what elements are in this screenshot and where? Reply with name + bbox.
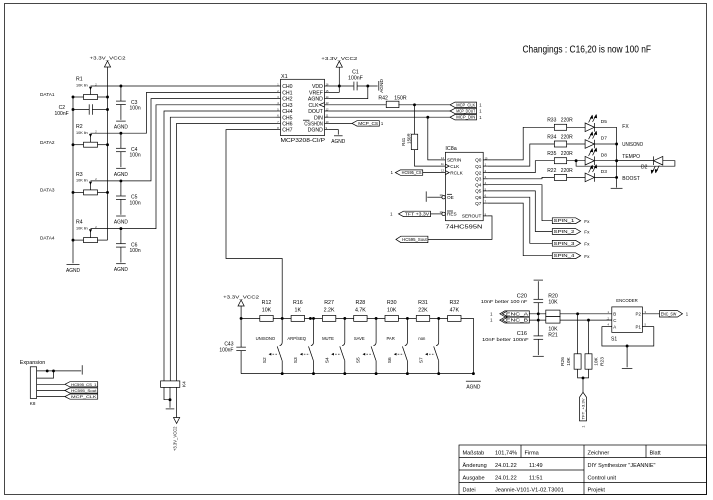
pin 1 (MCP_DOUT) xyxy=(479,109,482,114)
svg-text:S5: S5 xyxy=(356,357,362,363)
wire Q0 to R33 xyxy=(488,127,556,160)
svg-text:D5: D5 xyxy=(601,119,607,125)
svg-text:47K: 47K xyxy=(450,308,460,314)
wire K4 pin1 to ground xyxy=(164,387,170,399)
svg-text:AGND: AGND xyxy=(466,385,480,391)
svg-text:Q1: Q1 xyxy=(475,164,482,169)
svg-text:Q4: Q4 xyxy=(475,183,482,188)
wire SEROUT to flag xyxy=(428,216,492,240)
svg-text:R34: R34 xyxy=(547,134,556,140)
svg-text:S4: S4 xyxy=(324,357,330,363)
pin CLK (IC8a) xyxy=(441,162,461,169)
junction node1 top xyxy=(281,317,284,320)
IC X1 box xyxy=(281,79,325,135)
net flag ENC_A xyxy=(500,311,530,317)
svg-text:Ausgabe: Ausgabe xyxy=(463,475,485,481)
svg-text:MUTE: MUTE xyxy=(322,336,334,341)
svg-text:Q7: Q7 xyxy=(475,201,482,206)
svg-text:ENC_SW: ENC_SW xyxy=(661,311,677,316)
svg-text:1: 1 xyxy=(381,121,384,126)
pin SEROUT xyxy=(462,212,488,218)
junction node4 bottom xyxy=(375,372,378,375)
svg-text:10K: 10K xyxy=(387,308,397,314)
svg-text:22K: 22K xyxy=(418,308,428,314)
svg-text:CLK: CLK xyxy=(309,103,320,109)
LED D5 xyxy=(585,114,607,132)
svg-text:Expansion: Expansion xyxy=(20,360,46,366)
svg-text:14: 14 xyxy=(441,156,444,160)
svg-text:MCP3208-CI/P: MCP3208-CI/P xyxy=(281,138,326,144)
svg-text:VREF: VREF xyxy=(309,91,323,97)
svg-text:DIY Synthesizer "JEANNIE": DIY Synthesizer "JEANNIE" xyxy=(588,463,656,469)
pin DGND (X1 pin 9) xyxy=(308,126,329,134)
svg-text:D2: D2 xyxy=(641,164,648,170)
switch S7 xyxy=(418,318,438,373)
svg-text:IC8a: IC8a xyxy=(445,146,456,152)
net flag TFT_+3.3V (vertical) xyxy=(580,392,587,427)
pin VDD (X1 pin 16) xyxy=(312,82,329,90)
svg-text:R21: R21 xyxy=(548,333,558,339)
svg-text:S2: S2 xyxy=(262,357,268,363)
junction C2 right xyxy=(106,108,109,111)
svg-text:CH5: CH5 xyxy=(282,115,292,121)
LED D3 xyxy=(585,164,607,182)
wire DOUT row xyxy=(329,110,450,112)
svg-text:DATA3: DATA3 xyxy=(40,188,55,193)
svg-text:SPIN_2: SPIN_2 xyxy=(554,229,576,234)
pin VREF (X1 pin 15) xyxy=(309,89,329,97)
svg-text:MCP_DIN: MCP_DIN xyxy=(456,115,475,120)
resistor R26 xyxy=(560,314,581,369)
svg-text:1K: 1K xyxy=(295,308,302,314)
svg-text:Changings : C16,20 is now 100: Changings : C16,20 is now 100 nF xyxy=(523,44,652,55)
svg-text:24.01.22: 24.01.22 xyxy=(495,463,517,469)
junction VDD supply xyxy=(338,85,341,88)
resistor R16 xyxy=(291,300,304,321)
wire C20-C16 column xyxy=(537,303,539,336)
svg-text:100n: 100n xyxy=(130,248,141,254)
svg-text:220R: 220R xyxy=(561,151,573,157)
wire ENC_A row xyxy=(529,313,612,315)
ground bar (K8) xyxy=(81,365,83,374)
svg-text:R27: R27 xyxy=(324,300,334,306)
junction node1 bottom xyxy=(281,372,284,375)
wire DIN row xyxy=(329,116,450,118)
resistor R31 xyxy=(416,300,429,321)
junction node3 bottom xyxy=(343,372,346,375)
resistor R20 xyxy=(546,294,560,317)
svg-text:10K: 10K xyxy=(593,356,599,365)
svg-text:SPIN_4: SPIN_4 xyxy=(554,253,576,258)
wire to LED D5 xyxy=(567,126,585,128)
wire CH2 to R3 wiper xyxy=(91,99,277,181)
wire AGND pin riser xyxy=(329,86,368,99)
junction C2 left xyxy=(72,108,75,111)
svg-text:UNISONO: UNISONO xyxy=(622,142,643,148)
resistor R21 xyxy=(546,317,560,339)
svg-text:ENC_B: ENC_B xyxy=(506,318,528,323)
resistor R42 xyxy=(378,96,406,108)
svg-text:100nF: 100nF xyxy=(219,347,233,353)
wire ground bus left xyxy=(72,97,74,263)
svg-text:HC595_Sout: HC595_Sout xyxy=(71,389,96,393)
resistor R35 xyxy=(547,151,573,164)
pin RCLK xyxy=(441,169,464,176)
svg-text:R33: R33 xyxy=(547,118,556,124)
LED D8 xyxy=(585,148,607,166)
junction K8 pin1 xyxy=(46,369,49,372)
svg-text:101,74%: 101,74% xyxy=(495,450,517,456)
wire ENC_B row xyxy=(529,319,612,321)
wire S1 to ground xyxy=(626,346,628,367)
wire C20 column top xyxy=(537,281,539,299)
svg-text:Zeichner: Zeichner xyxy=(588,450,610,456)
junction D7 bus xyxy=(615,143,618,146)
ground AGND (ladder) xyxy=(466,381,481,391)
junction rail R1 xyxy=(106,96,109,99)
svg-text:AGND: AGND xyxy=(114,267,128,273)
svg-text:R31: R31 xyxy=(418,300,428,306)
svg-text:3: 3 xyxy=(645,310,647,314)
wire K8 pin1 xyxy=(37,370,82,372)
ground AGND (C3) xyxy=(114,121,128,131)
svg-text:D7: D7 xyxy=(601,136,607,142)
svg-text:4: 4 xyxy=(608,323,610,327)
svg-text:ENCODER: ENCODER xyxy=(616,298,638,303)
svg-text:P1: P1 xyxy=(636,324,642,329)
wire ladder top row xyxy=(241,318,473,373)
wire LED cathode bus xyxy=(616,127,618,187)
svg-text:MCP_CLK: MCP_CLK xyxy=(456,102,475,107)
pin 1 (ENC_SW) xyxy=(686,312,689,317)
svg-text:1: 1 xyxy=(490,318,493,323)
junction node6 top xyxy=(437,317,440,320)
wire Q1 to R34 xyxy=(488,144,556,166)
svg-text:Fx: Fx xyxy=(584,230,590,235)
junction R23 tap xyxy=(587,319,590,322)
wire D5 cathode xyxy=(594,126,616,128)
svg-text:TFT +3.3V: TFT +3.3V xyxy=(405,211,430,216)
svg-text:Maßstab: Maßstab xyxy=(463,450,485,456)
wire K4 pin3 supply xyxy=(176,387,178,417)
junction K8 pin2 xyxy=(52,369,55,372)
wire K4 pin2 ground stub xyxy=(169,387,171,407)
label K8 xyxy=(30,401,36,406)
wire K8 pin2 xyxy=(37,371,54,378)
svg-text:MCP_CLK: MCP_CLK xyxy=(71,395,97,399)
LED D7 xyxy=(585,131,607,149)
svg-text:S6: S6 xyxy=(387,357,393,363)
svg-text:R3: R3 xyxy=(76,172,83,178)
svg-text:DIN: DIN xyxy=(314,115,323,121)
svg-text:ARP/SEQ: ARP/SEQ xyxy=(287,336,306,341)
svg-text:TEMPO: TEMPO xyxy=(622,154,640,160)
svg-text:150R: 150R xyxy=(394,96,407,102)
svg-text:Änderung: Änderung xyxy=(463,462,487,469)
capacitor C3 xyxy=(116,86,141,120)
svg-text:10K lin: 10K lin xyxy=(76,226,88,230)
svg-text:CH1: CH1 xyxy=(282,91,292,97)
svg-text:R32: R32 xyxy=(449,300,459,306)
junction node4 top xyxy=(375,317,378,320)
wire VREF to supply xyxy=(329,91,340,93)
resistor R27 xyxy=(322,300,335,321)
svg-text:non: non xyxy=(418,336,426,341)
ground AGND (C5) xyxy=(114,216,128,226)
label Fx (SPIN_3) xyxy=(584,241,590,246)
wire Q5 to SPIN_2 xyxy=(488,191,552,232)
power +3.3V_VCC2 (ladder) xyxy=(223,295,259,319)
junction D8 anode xyxy=(575,159,578,162)
svg-text:SEROUT: SEROUT xyxy=(462,214,482,219)
svg-text:MCP_DOUT: MCP_DOUT xyxy=(456,108,475,113)
svg-text:DOUT: DOUT xyxy=(308,109,324,115)
svg-text:K8: K8 xyxy=(30,401,36,406)
svg-text:10K lin: 10K lin xyxy=(76,179,88,183)
svg-text:R35: R35 xyxy=(547,151,556,157)
pin A (encoder) xyxy=(602,323,616,330)
svg-text:FX: FX xyxy=(622,124,629,130)
switch S2 xyxy=(256,318,283,373)
label BOOST xyxy=(622,176,640,182)
svg-text:220R: 220R xyxy=(561,118,573,124)
net flag MCP_DOUT xyxy=(450,108,477,113)
pin CH7 (X1 pin 8) xyxy=(277,126,293,134)
junction column ENC_A xyxy=(537,312,540,315)
ground (S1) xyxy=(622,368,633,370)
svg-text:R41: R41 xyxy=(401,137,406,146)
capacitor C1 xyxy=(348,70,377,91)
wire R41 top xyxy=(414,105,416,134)
pin DIN (X1 pin 11) xyxy=(314,114,329,122)
capacitor C43 xyxy=(219,318,246,373)
label S1 xyxy=(611,336,617,342)
pin Q4 xyxy=(475,181,488,187)
junction ground bus R2 xyxy=(72,143,75,146)
svg-text:R2: R2 xyxy=(76,124,83,130)
svg-text:S3: S3 xyxy=(293,357,299,363)
pin RES (inverted) xyxy=(440,210,457,217)
svg-text:2.2K: 2.2K xyxy=(324,308,335,314)
junction DIN/SERIN xyxy=(426,116,429,119)
wire D2 loop xyxy=(576,161,675,167)
net flag SPIN_3 xyxy=(552,240,580,246)
pin AGND (X1 pin 14) xyxy=(308,95,329,103)
svg-text:Projekt: Projekt xyxy=(588,488,606,494)
pin CH5 (X1 pin 6) xyxy=(277,114,293,122)
junction C6 tap xyxy=(119,227,122,230)
svg-text:100n: 100n xyxy=(130,153,141,159)
svg-text:C: C xyxy=(613,318,616,323)
wire R41 to CLK pin xyxy=(415,150,441,166)
svg-text:10K: 10K xyxy=(566,356,572,365)
pin 1 (ENC_B) xyxy=(490,318,493,323)
switch S6 xyxy=(386,318,407,373)
svg-text:CH0: CH0 xyxy=(282,84,292,90)
svg-text:Q0: Q0 xyxy=(475,158,482,163)
svg-text:100n: 100n xyxy=(130,200,141,206)
pin CS/SHDN (X1 pin 10) xyxy=(303,120,329,128)
net flag MCP_DIN xyxy=(450,115,477,120)
svg-text:1: 1 xyxy=(390,212,393,217)
connector K4 box xyxy=(161,381,188,388)
resistor R30 xyxy=(385,300,398,321)
ground bar (OE) xyxy=(425,191,427,201)
svg-text:R26: R26 xyxy=(560,357,566,366)
junction node3 top xyxy=(343,317,346,320)
svg-text:DATA4: DATA4 xyxy=(40,235,55,240)
wire CLK row left xyxy=(329,104,387,106)
resistor R28 xyxy=(354,300,367,321)
wire D8 cathode xyxy=(594,160,653,162)
label Expansion xyxy=(20,360,46,366)
svg-text:R12: R12 xyxy=(262,300,272,306)
capacitor C2 xyxy=(55,104,108,117)
wire VDD row xyxy=(329,85,354,87)
wire R26/R23 join xyxy=(578,369,589,378)
junction D3 bus xyxy=(615,176,618,179)
svg-text:R22: R22 xyxy=(547,168,556,174)
title block grid xyxy=(459,445,707,495)
junction join xyxy=(582,376,585,379)
wire R2 right terminal to rail xyxy=(98,144,108,146)
svg-text:Q6: Q6 xyxy=(475,195,482,200)
junction node5 bottom xyxy=(406,372,409,375)
pin CH2 (X1 pin 3) xyxy=(277,95,293,103)
junction C3 tap xyxy=(119,85,122,88)
svg-text:TFT_+3.3V: TFT_+3.3V xyxy=(582,397,586,419)
svg-text:10nF better 100nF: 10nF better 100nF xyxy=(482,337,529,342)
wire CH7 to keypad ladder xyxy=(226,130,282,319)
svg-text:S1: S1 xyxy=(611,336,617,342)
wire R4 right terminal to rail xyxy=(98,239,108,241)
svg-text:DATA1: DATA1 xyxy=(40,92,55,97)
pin SERIN xyxy=(441,156,462,163)
svg-text:Control unit: Control unit xyxy=(588,475,617,481)
pin Q2 xyxy=(475,169,488,175)
pin P1 (encoder) xyxy=(636,323,654,330)
wire to LED D3 xyxy=(567,176,585,178)
label 74HC595N xyxy=(445,225,482,231)
svg-text:10K: 10K xyxy=(548,300,558,306)
wire CH3 to R4 wiper xyxy=(91,105,277,229)
ground (K4) xyxy=(166,408,175,410)
junction ground bus R1 xyxy=(72,96,75,99)
encoder S1 body box xyxy=(612,307,643,333)
svg-text:AGND: AGND xyxy=(114,172,128,178)
svg-text:74HC595N: 74HC595N xyxy=(445,225,482,231)
junction column ENC_B xyxy=(537,319,540,322)
title block row3 text xyxy=(463,475,617,481)
svg-text:Firma: Firma xyxy=(525,450,540,456)
svg-text:HC595_Sout: HC595_Sout xyxy=(402,237,427,242)
wire R4 left terminal xyxy=(73,239,84,241)
ground AGND (DGND) xyxy=(331,136,345,145)
node DATA3 xyxy=(40,188,55,193)
svg-text:1: 1 xyxy=(490,311,493,316)
junction ground bus R3 xyxy=(72,191,75,194)
net flag ENC_B xyxy=(500,317,530,323)
title block row1 text xyxy=(463,450,662,456)
pin CH0 (X1 pin 1) xyxy=(277,82,293,90)
wire K8 pin4 xyxy=(37,390,65,392)
svg-text:AGND: AGND xyxy=(114,220,128,226)
svg-text:D3: D3 xyxy=(601,169,607,175)
pin CH4 (X1 pin 5) xyxy=(277,107,293,115)
pin 1 (MCP_CS) xyxy=(381,121,384,126)
label TEMPO xyxy=(622,154,640,160)
svg-text:AGND: AGND xyxy=(114,125,128,131)
ground AGND (C1, rotated) xyxy=(379,79,385,93)
potentiometer R3 xyxy=(76,172,98,195)
wire CLK row right xyxy=(398,104,450,106)
net flag MCP_CS xyxy=(352,121,379,126)
junction rail R3 xyxy=(106,191,109,194)
junction C1 right xyxy=(366,85,369,88)
resistor R33 xyxy=(547,118,573,131)
svg-text:HC595_CS: HC595_CS xyxy=(402,170,422,175)
junction C5 tap xyxy=(119,179,122,182)
pin OE (inverted) xyxy=(427,193,453,200)
junction rail R2 xyxy=(106,143,109,146)
svg-text:1: 1 xyxy=(479,102,482,107)
capacitor C20 xyxy=(481,293,543,304)
svg-text:AGND: AGND xyxy=(331,139,345,145)
pin CH6 (X1 pin 7) xyxy=(277,120,293,128)
junction C4 tap xyxy=(119,132,122,135)
junction node6 bottom xyxy=(437,372,440,375)
capacitor C4 xyxy=(116,133,141,167)
svg-text:150R: 150R xyxy=(406,133,411,144)
svg-text:RCLK: RCLK xyxy=(450,170,463,175)
net flag HC595_Sout xyxy=(396,236,428,242)
junction ladder supply xyxy=(240,317,243,320)
junction K4 ground xyxy=(169,398,172,401)
net flag SPIN_4 xyxy=(552,253,580,259)
wire R1 right terminal to rail xyxy=(98,96,108,98)
svg-text:SAVE: SAVE xyxy=(354,336,365,341)
wire CH4 to K4 pin1 xyxy=(164,111,277,381)
svg-text:Datei: Datei xyxy=(463,488,476,494)
svg-text:10K lin: 10K lin xyxy=(76,83,88,87)
pin CH1 (X1 pin 2) xyxy=(277,89,293,97)
svg-text:24.01.22: 24.01.22 xyxy=(495,475,517,481)
wire K8 pin5 xyxy=(37,396,65,398)
svg-text:10K: 10K xyxy=(262,308,272,314)
wire Q3 to R22 xyxy=(488,177,556,178)
junction ladder end xyxy=(472,372,475,375)
label MCP3208-CI/P xyxy=(281,138,326,144)
svg-text:P2: P2 xyxy=(636,312,642,317)
potentiometer R4 xyxy=(76,220,98,243)
net flag SPIN_2 xyxy=(552,229,580,235)
potentiometer R2 xyxy=(76,124,98,147)
wire CH5 to K4 pin2 xyxy=(170,117,276,381)
pin Q0 xyxy=(475,156,488,162)
switch S3 xyxy=(287,318,313,373)
pin CLK (X1 pin 13) xyxy=(309,101,330,109)
svg-text:Fx: Fx xyxy=(584,241,590,246)
svg-text:10K lin: 10K lin xyxy=(76,131,88,135)
label Fx (SPIN_1) xyxy=(584,219,590,224)
svg-text:100nF: 100nF xyxy=(348,76,363,82)
svg-text:R23: R23 xyxy=(599,357,605,366)
pin 1 (ENC_A) xyxy=(490,311,493,316)
pin B (encoder) xyxy=(608,310,617,317)
junction node2 bottom xyxy=(312,372,315,375)
svg-text:DATA2: DATA2 xyxy=(40,140,55,145)
wire CH6 to K4 pin3 xyxy=(177,123,277,381)
